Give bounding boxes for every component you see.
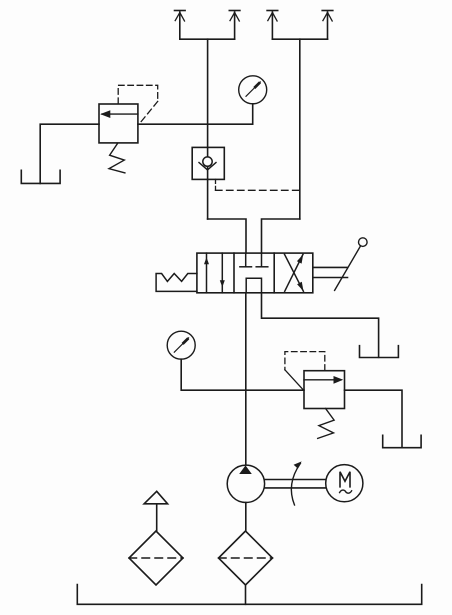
CV1 ball <box>203 157 212 166</box>
RV1 pilot line (dashed) <box>118 85 158 124</box>
breather arrow A4 <box>322 11 333 40</box>
wire: gauge PG1 stem <box>252 104 254 124</box>
RV1 spring <box>109 143 125 173</box>
directional valve DV1 outer body <box>197 253 313 293</box>
wire: P line valve to pump <box>245 293 247 465</box>
rotation arrow <box>291 461 301 505</box>
tank T1 <box>21 170 60 183</box>
wire: connector pair 2 <box>272 38 327 40</box>
RV2 pilot line (dashed) <box>285 352 325 390</box>
wire: junction to valve port B <box>262 219 300 253</box>
wire: main line y124 from relief valve to gauge stem <box>138 123 253 125</box>
DV1 return spring (left) <box>156 274 197 292</box>
wire: check valve down <box>207 179 209 219</box>
relief valve RV1 body <box>99 104 138 143</box>
wire: junction to valve port A <box>208 219 246 253</box>
DV1 center envelope: blocked A/B, bridged P-T <box>240 253 268 293</box>
CV1 seat <box>199 163 216 170</box>
pressure gauge PG1 <box>239 76 267 104</box>
DV1 manual lever <box>313 238 367 291</box>
tank T3 <box>383 435 421 447</box>
wire: gauge PG2 stem and branch line <box>181 359 304 390</box>
wire: stem 1 down to check valve <box>207 39 209 147</box>
check valve CV1 body <box>192 147 224 179</box>
CV1 interior line <box>207 147 209 179</box>
RV2 spring <box>318 409 334 439</box>
RV1 internal flow arrow (points left) <box>100 110 138 118</box>
drive shaft <box>265 480 326 488</box>
reservoir (bottom tank) <box>77 585 421 605</box>
breather arrow A2 <box>229 11 240 40</box>
wire: connector pair 1 <box>180 38 235 40</box>
electric motor M1 <box>326 465 363 502</box>
CV1 pilot line (dashed) <box>216 179 300 190</box>
DV1 envelope divider 1 <box>233 253 235 293</box>
breather arrow A3 <box>267 11 278 40</box>
DV1 envelope divider 2 <box>273 253 275 293</box>
tank T2 <box>360 346 399 358</box>
wire: valve T port to tank T2 <box>262 293 379 358</box>
RV2 internal flow arrow (points right) <box>304 376 343 384</box>
DV1 left envelope: parallel flow arrows <box>204 253 225 293</box>
filter F1 (diamond) <box>129 531 183 585</box>
breather arrow A1 <box>175 11 186 40</box>
filter F2 (suction strainer diamond) <box>219 503 273 605</box>
pressure gauge PG2 <box>167 331 195 359</box>
air breather cap (filter F1 top) <box>144 491 168 531</box>
DV1 right envelope: crossed flow with arrows <box>285 254 304 291</box>
wire: stem 2 down to junction <box>299 39 301 219</box>
wire: RV2 outlet to tank T3 <box>345 390 403 448</box>
pump P1 <box>227 465 264 502</box>
wire: RV1 to tank <box>40 124 99 183</box>
relief valve RV2 body <box>304 371 345 409</box>
